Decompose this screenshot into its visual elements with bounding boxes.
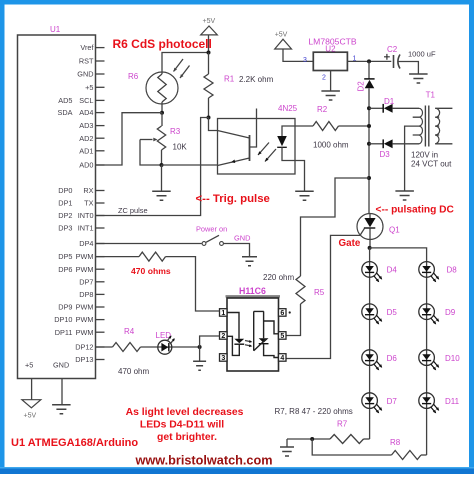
svg-text:+5: +5 [85, 83, 93, 92]
node +5V rail [207, 51, 211, 55]
4N25 internal LED [282, 126, 295, 136]
svg-text:DP8: DP8 [79, 290, 93, 299]
resistor R4 [96, 346, 113, 348]
LED D4 [362, 262, 382, 283]
svg-text:DP5: DP5 [58, 252, 72, 261]
IC U1 ATMEGA168 box [18, 35, 96, 379]
svg-text:R6 CdS photocell: R6 CdS photocell [113, 37, 212, 51]
svg-text:DP7: DP7 [79, 277, 93, 286]
svg-text:PWM: PWM [76, 315, 94, 324]
LED D11 [419, 393, 439, 414]
T1 core [425, 106, 428, 147]
R6 light arrows [174, 59, 190, 78]
wire R3 node to 4N25 emitter [162, 164, 218, 166]
wire +5V rail to photocell top [162, 53, 209, 73]
svg-text:get brighter.: get brighter. [157, 432, 217, 443]
svg-text:R5: R5 [314, 288, 325, 297]
svg-text:Gate: Gate [339, 238, 361, 249]
U1 pin DP1 TX [96, 202, 105, 204]
svg-text:D11: D11 [445, 397, 460, 406]
resistor R1 [208, 53, 210, 75]
svg-text:RX: RX [83, 186, 93, 195]
4N25 light arrows [258, 143, 276, 162]
U1 pin AD3 [96, 125, 105, 127]
svg-text:INT0: INT0 [78, 211, 94, 220]
U1 pin DP0 RX [96, 190, 105, 192]
R3 wiper arrow [140, 139, 153, 141]
svg-text:AD0: AD0 [79, 161, 93, 170]
U1 pin RST [96, 60, 105, 62]
svg-text:R6: R6 [128, 72, 139, 81]
resistor R7 [364, 438, 370, 440]
svg-text:5: 5 [280, 333, 284, 340]
svg-text:GND: GND [77, 70, 93, 79]
svg-text:D5: D5 [387, 308, 398, 317]
node LED/pin2/ground [198, 345, 202, 349]
node U2/C2/D2 [367, 59, 371, 63]
svg-text:D7: D7 [387, 397, 398, 406]
wire node to H11C6 pin 2 [200, 336, 220, 347]
U1 pin DP6 PWM [96, 268, 105, 270]
svg-text:INT1: INT1 [78, 224, 94, 233]
wire U1 GND pin down [61, 379, 63, 405]
wire bus tap to R5 [301, 178, 370, 276]
U1 pin AD2 [96, 137, 105, 139]
node photocell bottom [160, 111, 164, 115]
H11C6 pin 2 [220, 332, 228, 340]
svg-text:+5: +5 [25, 361, 33, 370]
pin 6 stub dot [289, 311, 291, 313]
svg-text:AD1: AD1 [79, 146, 93, 155]
svg-text:3: 3 [221, 355, 225, 362]
svg-text:T1: T1 [426, 91, 436, 100]
svg-text:DP0: DP0 [58, 186, 72, 195]
svg-text:C2: C2 [387, 45, 398, 54]
svg-text:GND: GND [53, 361, 69, 370]
svg-text:SCL: SCL [79, 96, 93, 105]
svg-text:Power on: Power on [196, 225, 227, 234]
svg-text:LEDs D4-D11 will: LEDs D4-D11 will [140, 419, 224, 430]
svg-text:D8: D8 [447, 266, 458, 275]
photocell R6 [146, 72, 178, 104]
ground (C2) [409, 74, 428, 83]
node D1 [367, 106, 371, 110]
svg-text:DP9: DP9 [58, 303, 72, 312]
svg-text:DP1: DP1 [58, 199, 72, 208]
svg-text:PWM: PWM [76, 303, 94, 312]
wire collector node into 4N25 [209, 118, 218, 131]
svg-text:DP13: DP13 [75, 355, 93, 364]
svg-text:U1 ATMEGA168/Arduino: U1 ATMEGA168/Arduino [11, 437, 138, 449]
DC bus [368, 88, 370, 213]
svg-text:PWM: PWM [76, 252, 94, 261]
svg-text:D6: D6 [387, 354, 398, 363]
svg-text:U2: U2 [325, 45, 336, 54]
H11C6 pin 4 [279, 354, 287, 362]
svg-text:PWM: PWM [76, 328, 94, 337]
LED D9 [419, 304, 439, 325]
H11C6 pin 6 [279, 309, 287, 317]
svg-text:R7, R8 47 - 220 ohms: R7, R8 47 - 220 ohms [275, 407, 353, 416]
svg-text:AD2: AD2 [79, 134, 93, 143]
diode D3 [369, 143, 383, 145]
svg-text:4N25: 4N25 [278, 104, 298, 113]
svg-text:+5V: +5V [203, 18, 216, 25]
wire Q1 cathode down [369, 214, 371, 248]
wire U1 +5 pin down [31, 379, 33, 400]
svg-text:1000 uF: 1000 uF [408, 50, 436, 59]
svg-text:+5V: +5V [24, 413, 37, 420]
svg-text:U1: U1 [50, 25, 61, 34]
node R1 bottom / collector / ZC [207, 116, 211, 120]
svg-text:www.bristolwatch.com: www.bristolwatch.com [135, 454, 273, 468]
switch Power on [96, 243, 202, 245]
resistor R5 [296, 276, 305, 304]
svg-text:PWM: PWM [76, 265, 94, 274]
U1 pin DP2 INT0 [96, 215, 105, 217]
ground (T1 center tap) [395, 191, 414, 200]
wire U2 ground [330, 71, 332, 91]
U1 pin GND [96, 73, 105, 75]
node R2/bus [367, 124, 371, 128]
H11C6 pin 3 [220, 354, 228, 362]
svg-text:D10: D10 [445, 354, 460, 363]
wire R3 node to ground [161, 165, 163, 191]
wire R3 wiper to bottom [140, 140, 162, 166]
svg-text:24 VCT out: 24 VCT out [411, 160, 452, 169]
svg-text:RST: RST [79, 57, 94, 66]
svg-text:As light level decreases: As light level decreases [126, 407, 244, 418]
svg-text:AD4: AD4 [79, 108, 93, 117]
T1 primary winding [435, 108, 439, 144]
U1 pin +5 [96, 86, 105, 88]
optocoupler 4N25 box [218, 119, 296, 175]
diode D2 (on bus, pointing up) [368, 61, 370, 79]
svg-text:TX: TX [84, 199, 93, 208]
diode D1 [369, 107, 383, 109]
svg-text:DP11: DP11 [55, 328, 73, 337]
ground (4N25 LED) [295, 191, 314, 200]
svg-text:<-- pulsating DC: <-- pulsating DC [376, 205, 455, 216]
H11C6 internal LED [227, 313, 239, 339]
ground (R7) [286, 439, 288, 447]
svg-text:<-- Trig. pulse: <-- Trig. pulse [196, 193, 270, 205]
svg-text:SDA: SDA [57, 108, 72, 117]
U1 pin DP7 [96, 281, 105, 283]
svg-text:R3: R3 [170, 127, 181, 136]
svg-text:DP2: DP2 [58, 211, 72, 220]
wire ZC pulse: R1/collector node to DP2 INT0 [96, 118, 209, 216]
U1 pin SDA AD4 [96, 112, 105, 114]
resistor 470 ohms (DP5) [96, 256, 140, 258]
svg-text:R4: R4 [124, 327, 135, 336]
node LED columns [368, 246, 372, 250]
wire node to ground [199, 347, 201, 361]
U1 pin DP12 [96, 346, 105, 348]
svg-text:6: 6 [280, 310, 284, 317]
svg-text:AD5: AD5 [58, 96, 72, 105]
4N25 phototransistor [249, 135, 251, 161]
wire top of LED columns [369, 248, 371, 439]
H11C6 photo-SCR [254, 311, 264, 350]
svg-text:R2: R2 [317, 105, 328, 114]
U1 pin DP9 PWM [96, 306, 105, 308]
svg-text:+5V: +5V [275, 32, 288, 39]
svg-text:D9: D9 [445, 308, 456, 317]
U1 pin DP8 [96, 293, 105, 295]
svg-text:2: 2 [221, 333, 225, 340]
resistor R2 [295, 125, 313, 127]
U1 pin Vref [96, 47, 105, 49]
svg-text:AD3: AD3 [79, 121, 93, 130]
U1 pin DP4 [96, 243, 105, 245]
svg-text:D3: D3 [380, 150, 391, 159]
svg-text:Q1: Q1 [389, 226, 400, 235]
optocoupler H11C6 [226, 295, 281, 297]
svg-text:H11C6: H11C6 [239, 286, 266, 296]
svg-text:120V in: 120V in [411, 151, 438, 160]
ground (U1 GND) [52, 405, 71, 414]
svg-text:4: 4 [280, 355, 284, 362]
potentiometer R3 [161, 113, 163, 126]
ground (R3) [152, 191, 171, 200]
wire Q1 gate to H11C6 pin 4 [286, 235, 360, 358]
svg-text:220 ohm: 220 ohm [263, 273, 294, 282]
node R7/R8 [310, 437, 314, 441]
regulator U2 LM7805CTB [313, 52, 347, 70]
T1 center tap to ground [405, 126, 419, 191]
svg-text:DP6: DP6 [58, 265, 72, 274]
svg-text:GND: GND [234, 234, 250, 243]
U1 pin DP5 PWM [96, 256, 105, 258]
svg-text:1000 ohm: 1000 ohm [313, 141, 349, 150]
svg-text:D4: D4 [387, 266, 398, 275]
resistor R8 [312, 439, 391, 455]
SCR Q1 [357, 214, 383, 240]
border frame [0, 0, 474, 5]
U1 pin DP10 PWM [96, 319, 105, 321]
LED D8 [419, 262, 439, 283]
wire photocell bottom to AD0 [96, 113, 163, 165]
svg-text:DP10: DP10 [54, 315, 72, 324]
node R3 bottom [160, 163, 164, 167]
svg-text:R8: R8 [390, 438, 401, 447]
ground (LED) [193, 361, 206, 370]
LED D5 [362, 304, 382, 325]
H11C6 light arrows [245, 341, 251, 347]
LED D7 [362, 393, 382, 414]
svg-text:10K: 10K [173, 143, 188, 152]
svg-text:Vref: Vref [80, 43, 94, 52]
U1 pin AD0 [96, 164, 105, 166]
ground (U2) [321, 91, 340, 100]
svg-text:470 ohms: 470 ohms [131, 266, 171, 276]
svg-text:2.2K ohm: 2.2K ohm [239, 75, 274, 84]
svg-text:3: 3 [303, 57, 307, 64]
svg-text:D1: D1 [384, 97, 395, 106]
svg-text:470 ohm: 470 ohm [118, 367, 149, 376]
ground (power switch) [242, 257, 257, 266]
svg-text:DP4: DP4 [79, 239, 93, 248]
U1 pin DP3 INT1 [96, 227, 105, 229]
svg-text:2: 2 [322, 75, 326, 82]
H11C6 pin 5 [279, 332, 287, 340]
wire U2 output to bus [347, 60, 391, 62]
4N25 base stub [250, 109, 257, 148]
node R5 tap [367, 176, 371, 180]
svg-text:1: 1 [221, 310, 225, 317]
svg-text:D2: D2 [357, 81, 366, 92]
T1 secondary winding [419, 108, 423, 144]
H11C6 pin 1 [220, 309, 228, 317]
svg-text:ZC pulse: ZC pulse [118, 206, 148, 215]
+5V supply arrow (down) [22, 400, 41, 408]
node D3 [367, 142, 371, 146]
svg-text:DP12: DP12 [75, 343, 93, 352]
svg-text:R7: R7 [337, 420, 348, 429]
U1 pin DP11 PWM [96, 331, 105, 333]
U1 pin AD5 SCL [96, 99, 105, 101]
U1 pin DP13 [96, 359, 105, 361]
svg-text:R1: R1 [224, 75, 235, 84]
U1 pin AD1 [96, 150, 105, 152]
LED D10 [419, 350, 439, 371]
LED D6 [362, 350, 382, 371]
svg-text:DP3: DP3 [58, 224, 72, 233]
